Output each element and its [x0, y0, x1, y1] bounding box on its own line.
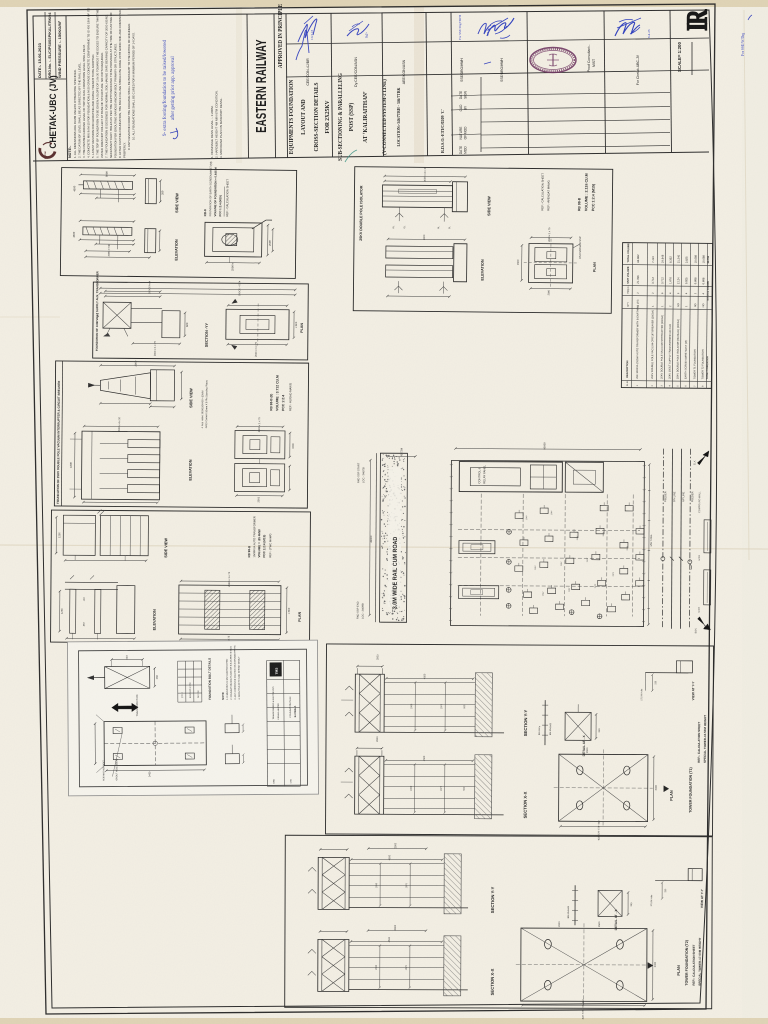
faint vertical crease right margin [744, 10, 749, 560]
box C side view tapered mast [100, 372, 150, 398]
box D elevation posts [65, 581, 118, 583]
IR Indian Railways monogram logo [682, 9, 713, 31]
box E TMS logo [270, 662, 282, 676]
box A plan leader line [252, 220, 266, 229]
box C plan pads [235, 430, 285, 458]
dimension texts [386, 677, 473, 679]
revision table header cells [451, 95, 481, 96]
box A mast side view upper [145, 179, 156, 204]
blue signature Dy CEE [347, 24, 369, 36]
box J: tower foundation T2 special tower 17.00m height [285, 835, 713, 1020]
embankment hatch J [444, 854, 461, 914]
revision table empty row lines [481, 93, 670, 95]
blue check mark large [296, 30, 309, 60]
title block grid [33, 152, 709, 161]
blue signature SSE cluster [487, 18, 514, 36]
box F ground markers side view [398, 207, 400, 221]
box A: foundation of earth screen mast [60, 160, 296, 279]
footing lines to embankment [384, 681, 475, 683]
box H top dim [388, 455, 415, 457]
box H left vertical dim chain [369, 460, 372, 615]
box E bolt detail small 1 [225, 724, 239, 733]
box E: pasted vendor sheet with foundation bolt details [67, 640, 318, 796]
box H road strip stippled [380, 453, 408, 622]
box H control room building [459, 462, 562, 493]
box J plan [521, 928, 647, 1001]
box J view at Y-Y [655, 880, 700, 882]
box B section drawing [103, 302, 131, 328]
lattice tower column J [318, 857, 349, 909]
box A mast elevation lower [83, 227, 132, 236]
box E bolt detail small 2 [225, 754, 239, 764]
box H platforms [704, 520, 711, 553]
box F: 25kV double pole isolator foundation [353, 166, 613, 314]
box G: bill of quantities table [621, 243, 712, 389]
box F side view bar [382, 185, 452, 208]
box B small arrows [232, 299, 237, 303]
box C elevation comb foundation [81, 431, 160, 500]
GL marks [345, 686, 353, 690]
box E anchor bolt detail [105, 666, 150, 688]
lattice tower column J [318, 939, 349, 991]
blue signature AEE [478, 23, 491, 34]
faint horizontal crease [0, 545, 768, 549]
Chetak logo crescent [40, 148, 55, 157]
box B: foundation of 100kVA LT supply aux transformer [93, 271, 309, 360]
box G column lines [631, 243, 632, 388]
box E small table [177, 661, 179, 702]
embankment hatch strip [475, 755, 492, 819]
box D plan striped rect [179, 585, 281, 635]
blue dash under names [484, 62, 491, 64]
box B long dimension chain on top [100, 288, 295, 290]
embankment hatch strip [475, 673, 492, 737]
box D: foundation of 15/30 kVA auto transformer [50, 509, 310, 651]
box J bolt rod detail [574, 885, 576, 925]
box A plan drawing [205, 222, 262, 257]
box H right inner dim line [648, 465, 651, 625]
footing lines J [349, 944, 444, 946]
box J detail at X [598, 890, 622, 916]
box H direction arrow north [697, 451, 709, 465]
dimension texts [386, 759, 473, 761]
box I plan [559, 754, 648, 821]
box H direction arrow south [698, 617, 711, 630]
box H equipment symbols [515, 513, 523, 519]
blue signature CEE [298, 19, 317, 42]
blue signature senior [615, 22, 640, 36]
lattice tower column [355, 756, 384, 814]
lattice tower column [355, 674, 384, 732]
box F elevation bars [386, 246, 453, 259]
box H second building [565, 462, 603, 492]
box H dashed bus lines [480, 494, 483, 616]
box J right rotated labels [648, 963, 653, 969]
box H road label [388, 467, 402, 607]
box A mast elevation upper [83, 181, 132, 190]
box E main bolt plan [104, 721, 206, 766]
box E vendor title block [266, 660, 269, 786]
box D side view tall panels [63, 515, 95, 555]
box H circle cross symbols [507, 529, 512, 534]
box H track connection symbols [661, 557, 665, 561]
GL marks [345, 768, 353, 772]
box C: foundation of 25kV double pole vacuum interrupter and circuit breaker [54, 359, 308, 508]
box E thick direction arrow [112, 703, 138, 711]
box I detail at X [565, 712, 591, 740]
box B plan [226, 309, 289, 340]
embankment hatch J [444, 936, 461, 996]
box J dim above [368, 848, 426, 850]
box A mast side view lower [145, 229, 156, 253]
box I bolt rod detail [544, 700, 546, 745]
teal pen mark near title block bottom [345, 150, 357, 162]
footing lines J [349, 862, 444, 864]
scan grain overlay [0, 0, 1, 1]
footing lines to embankment [384, 763, 475, 765]
proof consultant stamp [530, 48, 576, 73]
box H transformer plinths [459, 541, 495, 554]
title block horizontal dividers [286, 38, 709, 44]
box H: SSP equipment layout plan [355, 441, 711, 634]
vertical fold shadow in title block [414, 6, 424, 163]
box H railway tracks [662, 449, 665, 629]
box F plan [529, 243, 573, 282]
box I: tower foundation T1 special tower 10.50m height [325, 644, 713, 842]
box G band lines [622, 264, 712, 267]
box I view at Y-Y [645, 672, 688, 674]
box H compound fence [451, 461, 645, 627]
